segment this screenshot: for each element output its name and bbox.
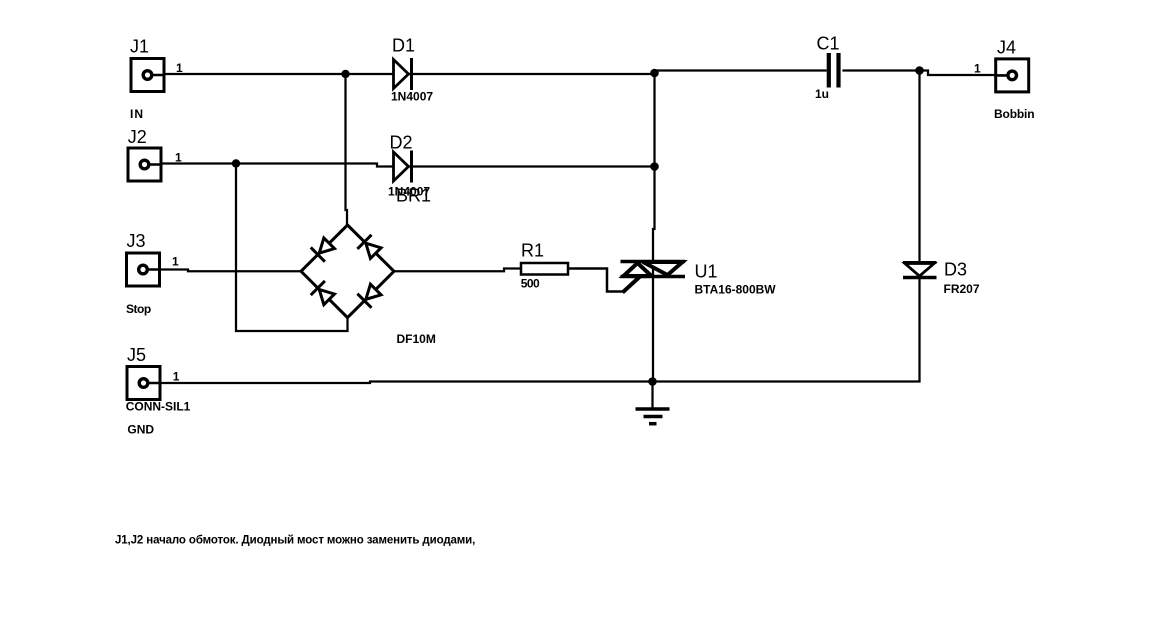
svg-text:1N4007: 1N4007 bbox=[388, 185, 430, 199]
svg-text:J1: J1 bbox=[130, 37, 149, 57]
svg-text:1: 1 bbox=[175, 151, 182, 165]
svg-text:J4: J4 bbox=[997, 38, 1016, 58]
svg-text:1: 1 bbox=[176, 61, 183, 75]
svg-text:500: 500 bbox=[521, 277, 540, 291]
svg-text:D3: D3 bbox=[944, 260, 967, 280]
svg-text:1: 1 bbox=[974, 62, 981, 76]
svg-text:Bobbin: Bobbin bbox=[994, 107, 1034, 121]
svg-text:J2: J2 bbox=[128, 127, 147, 147]
svg-text:1: 1 bbox=[173, 370, 180, 384]
svg-text:1u: 1u bbox=[815, 87, 829, 101]
svg-text:1: 1 bbox=[172, 255, 179, 269]
svg-text:DF10M: DF10M bbox=[397, 332, 436, 346]
svg-text:J3: J3 bbox=[127, 231, 146, 251]
svg-text:1N4007: 1N4007 bbox=[391, 90, 433, 104]
svg-text:U1: U1 bbox=[695, 262, 718, 282]
svg-text:CONN-SIL1: CONN-SIL1 bbox=[126, 400, 191, 414]
svg-text:IN: IN bbox=[130, 107, 144, 121]
svg-text:GND: GND bbox=[127, 423, 154, 437]
svg-text:BTA16-800BW: BTA16-800BW bbox=[695, 283, 777, 297]
svg-text:D2: D2 bbox=[390, 133, 413, 153]
svg-text:Stop: Stop bbox=[126, 302, 151, 316]
svg-text:R1: R1 bbox=[521, 241, 544, 261]
svg-text:J1,J2 начало обмоток. Диодный: J1,J2 начало обмоток. Диодный мост можно… bbox=[115, 535, 475, 547]
svg-text:D1: D1 bbox=[392, 36, 415, 56]
svg-text:C1: C1 bbox=[817, 34, 840, 54]
svg-text:FR207: FR207 bbox=[944, 282, 980, 296]
svg-text:J5: J5 bbox=[127, 345, 146, 365]
